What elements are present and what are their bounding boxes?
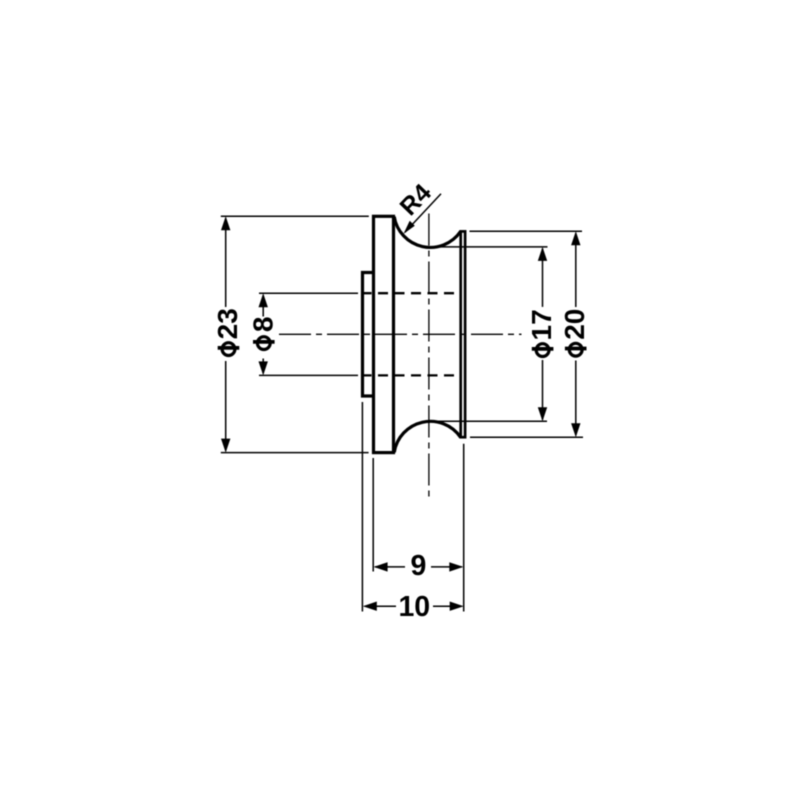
svg-text:9: 9 — [410, 550, 426, 582]
svg-text:8: 8 — [247, 317, 278, 333]
svg-text:23: 23 — [212, 308, 243, 339]
svg-text:10: 10 — [398, 591, 430, 623]
svg-text:17: 17 — [526, 309, 557, 340]
svg-text:20: 20 — [559, 309, 590, 340]
